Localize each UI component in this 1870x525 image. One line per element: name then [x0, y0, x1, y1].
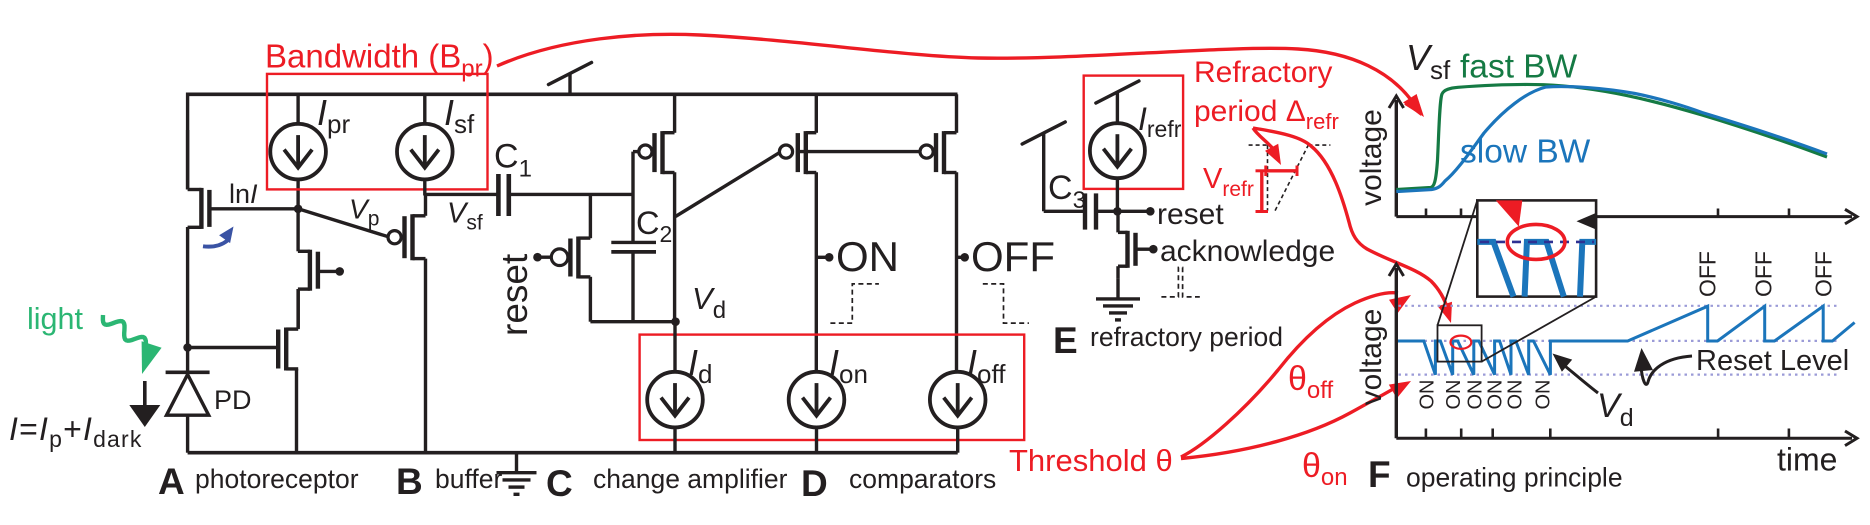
wire Vd to ON comparator gate (diagonal): [676, 153, 780, 217]
transistor Msf (source follower): [405, 214, 413, 260]
wire Mamp drain to rail: [673, 94, 676, 133]
svg-text:acknowledge: acknowledge: [1160, 235, 1335, 268]
svg-text:ON: ON: [1533, 380, 1555, 410]
transistor Mreset: [570, 237, 578, 279]
wire Mack drain up: [1116, 211, 1119, 232]
wire OFF branch to rail: [955, 94, 958, 133]
red curve theta_off: [1181, 293, 1398, 457]
power supply symbol C3: [1042, 134, 1045, 212]
wire Mreset top to input node: [589, 194, 592, 238]
photodiode PD: [166, 370, 210, 374]
acknowledge dot: [1149, 245, 1158, 254]
Vrefr marker: [1266, 169, 1297, 172]
power supply symbol on top rail: [568, 74, 571, 94]
svg-text:ON: ON: [1443, 380, 1465, 410]
svg-text:photoreceptor: photoreceptor: [195, 464, 359, 494]
svg-text:E: E: [1053, 320, 1078, 361]
red swoosh refractory to plot F: [1253, 128, 1448, 310]
svg-text:OFF: OFF: [1694, 251, 1720, 297]
svg-text:OFF: OFF: [1750, 251, 1776, 297]
top plot x axis: [1396, 215, 1852, 218]
inset blue waveform: [1477, 242, 1513, 297]
capacitor C2: [611, 241, 656, 244]
wire Mpr gate to photodiode node: [188, 346, 277, 349]
svg-text:slow BW: slow BW: [1460, 134, 1591, 171]
OFF dashed step symbol: [983, 284, 1029, 323]
ON dashed step symbol: [830, 284, 879, 323]
ground symbol E: [1116, 279, 1119, 299]
wire C3 to node: [1096, 210, 1117, 213]
svg-text:ON: ON: [836, 233, 899, 280]
wire rail to Isf: [423, 94, 426, 123]
red box Bandwidth: [267, 74, 488, 189]
cascode gate bias dot: [335, 267, 344, 276]
transistor Mack (acknowledge): [1128, 231, 1136, 268]
top plot y axis: [1395, 100, 1398, 217]
node refractory junction dot: [1113, 207, 1122, 216]
svg-text:refractory period: refractory period: [1090, 322, 1283, 352]
svg-text:time: time: [1777, 442, 1837, 478]
svg-text:F: F: [1368, 454, 1391, 495]
current source Irefr: [1090, 123, 1145, 178]
light squiggle arrow: [103, 315, 146, 355]
wire OFF branch down: [955, 172, 958, 371]
svg-text:fast BW: fast BW: [1460, 49, 1578, 86]
wire left rail of photoreceptor: [186, 93, 189, 190]
dotted reset level line: [1399, 340, 1841, 342]
inset connector lines: [1438, 200, 1478, 325]
svg-text:B: B: [396, 461, 423, 502]
svg-text:Refractory: Refractory: [1194, 56, 1332, 89]
top plot ticks: [1425, 209, 1428, 217]
current source Isf: [397, 124, 453, 180]
svg-text:comparators: comparators: [849, 464, 996, 494]
small red oval: [1451, 336, 1472, 349]
wire Msf bottom lead to ground rail: [424, 259, 427, 453]
red arrow to Vrefr marker: [1253, 128, 1276, 152]
capacitor C1: [496, 174, 501, 216]
wire ON branch to rail: [815, 94, 818, 133]
node lnI junction dot: [294, 205, 303, 214]
transistor OFF comparator: [936, 131, 944, 174]
wire comparator gate link: [798, 150, 921, 153]
bottom plot y axis: [1395, 268, 1398, 438]
bottom plot x axis: [1396, 437, 1852, 440]
svg-text:operating principle: operating principle: [1406, 463, 1623, 493]
wire Mfb gate to node lnI: [211, 207, 298, 210]
svg-text:ON: ON: [1505, 380, 1527, 410]
svg-text:PD: PD: [214, 385, 252, 415]
svg-text:light: light: [27, 302, 83, 336]
current source Ioff: [930, 372, 986, 428]
wire cascode drain to node lnI: [296, 209, 299, 252]
svg-text:Threshold θ: Threshold θ: [1009, 443, 1173, 478]
reset input dot: [533, 253, 542, 262]
Mack gate stub: [1138, 247, 1153, 250]
reset node dot E: [1146, 207, 1155, 216]
red box refractory: [1084, 76, 1183, 189]
dashed construction lines refractory: [1249, 144, 1268, 146]
red curve theta_on: [1181, 385, 1400, 459]
ON output dot: [816, 256, 828, 259]
wire Id top: [673, 322, 676, 372]
svg-text:lnI: lnI: [229, 179, 258, 209]
wire Msf top lead to Vsf: [424, 194, 427, 215]
transistor Mamp (inverting amplifier): [655, 131, 663, 174]
svg-text:change amplifier: change amplifier: [593, 464, 788, 494]
red arrowhead into top plot: [1404, 95, 1424, 117]
wire Mreset bottom to Vd line: [589, 277, 592, 322]
wire C3 left lead: [1044, 210, 1084, 213]
wire cascode gate stub: [320, 270, 339, 273]
red box Threshold: [640, 335, 1025, 440]
wire C1 to amp input node: [509, 193, 633, 196]
wire Mpr source to ground rail: [295, 369, 298, 453]
small zoom rect on waveform: [1438, 325, 1482, 361]
svg-text:D: D: [801, 463, 828, 504]
wire Ioff bottom: [956, 428, 959, 453]
transistor Mpr (photoreceptor amplifier): [278, 328, 286, 371]
curve Vd waveform: [1398, 306, 1855, 375]
wire photodiode to ground rail: [186, 415, 189, 453]
wire Vd vertical: [673, 172, 676, 321]
wire amp gate vertical: [631, 152, 634, 243]
OFF comparator gate bubble: [920, 145, 933, 158]
Mamp gate bubble: [639, 145, 652, 158]
dotted threshold line on: [1399, 374, 1841, 376]
inset black arrowhead: [1577, 213, 1597, 230]
inset red wedge: [1496, 200, 1523, 226]
wire Vsf node to C1: [424, 193, 497, 196]
svg-text:OFF: OFF: [1810, 251, 1836, 297]
wire Mamp gate to input vertical: [633, 150, 639, 153]
blue arrow (feedback current): [203, 241, 228, 247]
wire Vdd top rail: [186, 93, 958, 97]
wire Vd bottom line: [590, 320, 675, 323]
capacitor C3: [1083, 193, 1087, 229]
photodiode node dot: [183, 343, 192, 352]
ON comparator gate bubble: [779, 145, 792, 158]
svg-text:OFF: OFF: [971, 233, 1055, 280]
ground symbol (main): [515, 453, 518, 473]
wire Ion bottom: [815, 428, 818, 453]
Msf gate bubble: [388, 231, 401, 244]
wire Mpr drain up: [297, 289, 300, 329]
wire rail to Ipr: [296, 94, 299, 123]
inset zoom box: [1477, 200, 1596, 296]
wire Mfb drain to rail: [186, 130, 189, 190]
wire Id bottom: [673, 428, 676, 453]
svg-text:ON: ON: [1485, 380, 1507, 410]
svg-text:buffer: buffer: [435, 464, 502, 494]
wire Mreset gate stub: [539, 256, 552, 259]
Mreset gate bubble: [551, 249, 568, 266]
wire Mack source down: [1116, 266, 1119, 279]
Vrefr bracket: [1260, 171, 1263, 212]
current source Id: [647, 372, 703, 428]
svg-text:C: C: [546, 463, 573, 504]
wire node to reset dot: [1117, 210, 1149, 213]
wire Mfb source down to photodiode node: [186, 227, 189, 348]
svg-text:ON: ON: [1464, 380, 1486, 410]
photocurrent arrow: [143, 381, 147, 406]
red swoosh Bandwidth to plot F: [497, 34, 1414, 104]
wire Ipr to node: [296, 180, 299, 209]
svg-text:reset: reset: [494, 253, 535, 336]
black arrow to reset level: [1641, 356, 1692, 384]
current source Ipr: [270, 124, 326, 180]
transistor cascode (photoreceptor): [310, 250, 318, 291]
svg-text:voltage: voltage: [1355, 109, 1388, 206]
curve Vsf fast BW (green): [1396, 85, 1827, 190]
wire ground bottom rail: [188, 451, 958, 455]
wire cascode source to Mpr drain: [296, 289, 299, 328]
dotted threshold line off: [1399, 305, 1841, 307]
svg-text:A: A: [158, 461, 185, 502]
wire Vp diagonal: [298, 209, 388, 237]
power supply symbol Irefr: [1116, 93, 1119, 124]
svg-text:reset: reset: [1157, 198, 1224, 231]
transistor ON comparator: [798, 131, 806, 174]
transistor Mfb (photoreceptor feedback): [201, 188, 209, 229]
svg-text:Reset Level: Reset Level: [1696, 345, 1849, 377]
node Vd dot: [671, 317, 680, 326]
curve slow BW (blue): [1396, 86, 1827, 191]
OFF output dot: [957, 256, 964, 259]
current source Ion: [789, 372, 845, 428]
wire C2 bottom to Vd bottom line: [631, 252, 634, 322]
wire ON branch down: [815, 172, 818, 371]
svg-text:voltage: voltage: [1355, 309, 1388, 406]
wire Isf to Vsf node: [423, 180, 426, 196]
inset navy dashed line: [1480, 241, 1594, 244]
wire node to photodiode: [186, 348, 189, 373]
bottom plot ticks: [1425, 429, 1428, 439]
inset red oval: [1507, 224, 1565, 259]
wire Irefr to node: [1116, 178, 1119, 211]
svg-text:ON: ON: [1417, 380, 1439, 410]
acknowledge dashed pulse: [1161, 268, 1199, 297]
black arrow to Vd waveform: [1560, 362, 1598, 393]
